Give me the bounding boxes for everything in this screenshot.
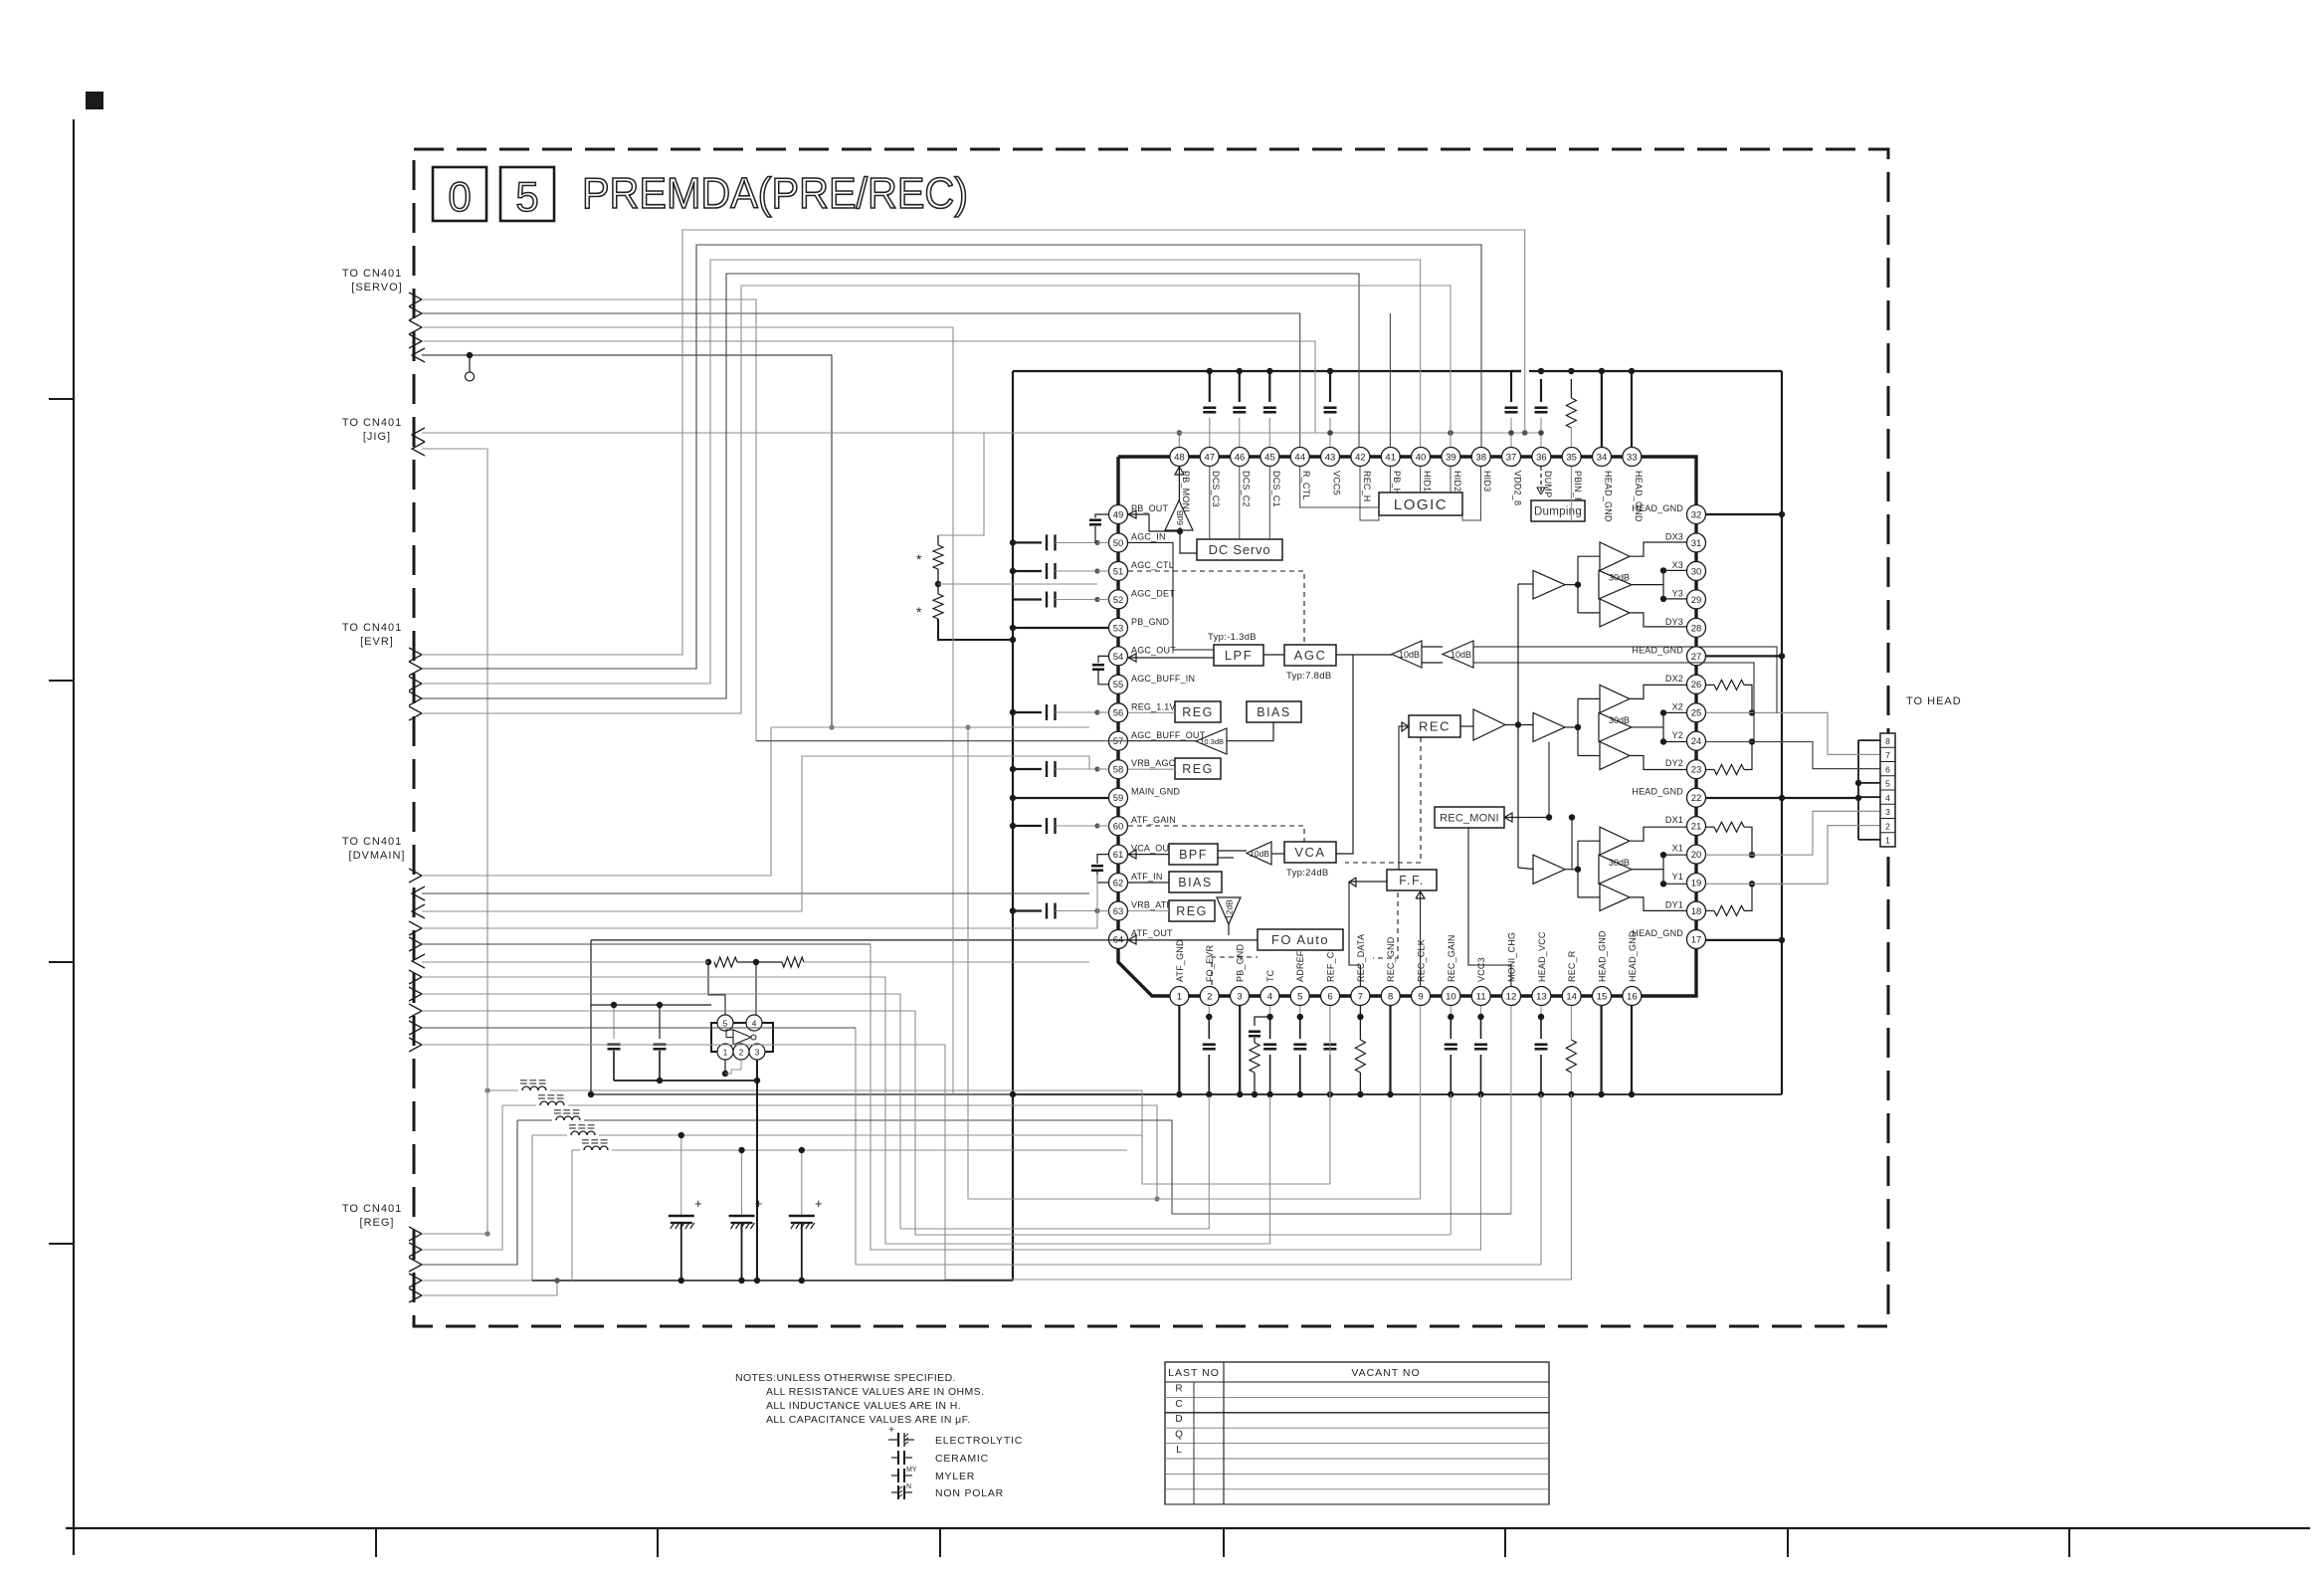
amplifier driver (group 1) (1533, 855, 1565, 884)
svg-text:56: 56 (1113, 708, 1124, 719)
svg-text:22: 22 (1691, 793, 1702, 804)
electrolytic capacitor C3 (801, 1150, 803, 1216)
svg-text:33: 33 (1627, 452, 1638, 463)
svg-text:HID3: HID3 (1482, 471, 1492, 492)
amplifier 30dB (group 3) (1599, 570, 1632, 599)
svg-text:REG: REG (1176, 904, 1208, 918)
wire AGC chain (1263, 654, 1284, 656)
connector TO CN401 SERVO chevrons (409, 293, 422, 306)
svg-text:44: 44 (1294, 452, 1305, 463)
svg-text:TO CN401: TO CN401 (342, 1203, 402, 1215)
svg-text:30dB: 30dB (1609, 715, 1630, 725)
wire Y2 to head connector pin6 (1706, 742, 1881, 769)
svg-text:DCS_C1: DCS_C1 (1271, 471, 1281, 507)
capacitor at pin 37 VDD2_8 (1511, 371, 1521, 402)
IC U201 top pins 48-33 (1170, 448, 1189, 467)
svg-text:DUMP: DUMP (1543, 471, 1553, 497)
wire pin 61 to BPF (1128, 854, 1169, 856)
svg-text:32: 32 (1691, 509, 1702, 520)
wire DVMAIN line7 (422, 977, 1270, 1244)
svg-text:3: 3 (755, 1047, 760, 1057)
capacitor at pin 11 (1480, 1006, 1482, 1017)
capacitor at pin 46 DCS_C2 (1239, 371, 1241, 402)
svg-text:61: 61 (1113, 850, 1124, 861)
svg-text:R: R (1175, 1383, 1182, 1394)
wire MAIN_GND row (1013, 797, 1109, 799)
svg-text:ALL RESISTANCE VALUES ARE IN O: ALL RESISTANCE VALUES ARE IN OHMS. (766, 1386, 984, 1398)
capacitor at pin 13 (1540, 1006, 1542, 1017)
capacitor at pin 50 (1013, 541, 1042, 543)
svg-text:DCS_C2: DCS_C2 (1242, 471, 1252, 507)
svg-text:HEAD_GND: HEAD_GND (1598, 930, 1608, 982)
wire EVR line4 riser (422, 274, 1359, 698)
svg-text:CERAMIC: CERAMIC (935, 1453, 989, 1465)
svg-text:HEAD_GND: HEAD_GND (1604, 471, 1614, 522)
ceramic capacitor at U202 (2) (659, 1005, 661, 1039)
svg-text:59: 59 (1113, 793, 1124, 804)
svg-text:10dB: 10dB (1451, 650, 1471, 660)
resistor DY2 damping (1706, 769, 1715, 771)
wire U202 pin1 stub (724, 1060, 726, 1074)
svg-text:29: 29 (1691, 595, 1702, 606)
svg-text:24: 24 (1691, 736, 1702, 747)
svg-text:4: 4 (1885, 793, 1890, 803)
wire AGC_CTL dashed (1128, 571, 1304, 645)
function block BIAS (AGC) (1247, 701, 1301, 722)
svg-text:REC: REC (1419, 719, 1451, 734)
wire top bus VCC5 (1013, 370, 1521, 372)
svg-text:N: N (906, 1483, 911, 1490)
capacitor+resistor at pin 4 TC (1255, 1017, 1270, 1026)
IC U201 left pins 49-64 (1109, 505, 1128, 524)
wire pin3 PB_GND to bus (1239, 1006, 1241, 1094)
svg-text:TO CN401: TO CN401 (342, 622, 402, 634)
svg-text:REC_GAIN: REC_GAIN (1447, 934, 1456, 982)
left ruler ticks (49, 398, 74, 400)
amplifier 30dB (group 2) (1599, 712, 1632, 741)
svg-text:AGC: AGC (1294, 648, 1327, 663)
wire ceramic caps to U202 (614, 1080, 757, 1082)
svg-text:42: 42 (1355, 452, 1366, 463)
wire pin 36 DUMP to Dumping block (dashed) (1540, 467, 1542, 494)
svg-text:MONI_CHG: MONI_CHG (1507, 932, 1517, 982)
amplifier driver (group 2) (1533, 712, 1565, 741)
svg-text:*: * (916, 604, 922, 620)
svg-text:HEAD_GND: HEAD_GND (1634, 471, 1644, 522)
wire REC_MONI to pin 12 (1468, 828, 1511, 986)
svg-text:ADREF: ADREF (1295, 950, 1305, 982)
capacitor at pin 5 (1299, 1006, 1301, 1017)
wire bundle below IC (gray staircase) (1329, 1006, 1331, 1184)
svg-text:REG: REG (1182, 705, 1214, 719)
svg-text:0: 0 (448, 173, 471, 220)
svg-text:MY: MY (906, 1467, 917, 1474)
wire REG ground line (532, 1280, 1013, 1281)
wire pin50 AGC_IN to AGC chain (1128, 542, 1214, 650)
svg-text:REC_GND: REC_GND (1386, 936, 1396, 982)
svg-text:REC_MONI: REC_MONI (1440, 812, 1499, 824)
capacitor between pins 61-62 (1097, 855, 1109, 864)
wire pin 63 to REG (1128, 910, 1169, 912)
svg-text:5: 5 (1297, 991, 1302, 1002)
svg-text:52: 52 (1113, 595, 1124, 606)
amplifier Y2/DY2 head amp (1600, 742, 1630, 770)
wire F.F. clock from pin 9 (1420, 891, 1422, 986)
svg-text:30dB: 30dB (1609, 858, 1630, 868)
svg-text:10dB: 10dB (1399, 650, 1420, 660)
svg-text:9: 9 (1418, 991, 1423, 1002)
svg-text:ELECTROLYTIC: ELECTROLYTIC (935, 1435, 1023, 1447)
svg-text:X2: X2 (1672, 701, 1683, 711)
svg-text:VDD2_8: VDD2_8 (1513, 471, 1523, 505)
svg-text:REG_1.1V: REG_1.1V (1131, 701, 1176, 711)
wire ATF_GAIN dashed (1128, 826, 1304, 842)
function block DC Servo (1197, 539, 1282, 560)
wire EVR line1 riser (422, 230, 1525, 655)
wire pin8 REC_GND to bus (1389, 1006, 1391, 1094)
svg-text:43: 43 (1325, 452, 1336, 463)
svg-text:ATF_GND: ATF_GND (1175, 939, 1185, 982)
svg-text:45: 45 (1264, 452, 1275, 463)
electrolytic capacitor C2 (741, 1150, 743, 1216)
wire SERVO line2 (to pin 44) (422, 313, 1300, 447)
svg-text:PB_GND: PB_GND (1236, 943, 1246, 982)
svg-text:REC_CLK: REC_CLK (1417, 939, 1427, 982)
svg-text:+: + (694, 1196, 702, 1211)
svg-text:28: 28 (1691, 623, 1702, 634)
svg-text:1: 1 (723, 1047, 728, 1057)
resistor chain * lower (937, 569, 939, 594)
svg-text:46: 46 (1235, 452, 1246, 463)
svg-text:MYLER: MYLER (935, 1471, 975, 1482)
wire pin1 ATF_GND to bus (1178, 1006, 1180, 1094)
function block Dumping (1531, 500, 1585, 521)
amplifier DX3/X3 head amp (1600, 542, 1630, 570)
svg-text:AGC_BUFF_IN: AGC_BUFF_IN (1131, 674, 1195, 684)
svg-text:62: 62 (1113, 879, 1124, 889)
function block REG (VRB_AGC) (1175, 758, 1221, 779)
amplifier 30dB (group 1) (1599, 855, 1632, 884)
svg-text:26: 26 (1691, 680, 1702, 690)
capacitor at pin 43 VCC5 (1329, 371, 1331, 402)
legend myler symbol (891, 1475, 898, 1477)
function block AGC (1284, 645, 1336, 666)
svg-text:VCC5: VCC5 (1332, 471, 1342, 495)
svg-text:48: 48 (1174, 452, 1185, 463)
svg-text:57: 57 (1113, 736, 1124, 747)
svg-text:HID1: HID1 (1423, 471, 1433, 492)
svg-text:BIAS: BIAS (1178, 876, 1213, 889)
wire pin 56 to REG (1128, 711, 1175, 713)
wire driver outputs (1565, 584, 1578, 586)
connector TO CN401 EVR chevrons (409, 648, 422, 662)
svg-text:HEAD_GND: HEAD_GND (1632, 787, 1683, 797)
wire REG line4 with inductor (422, 1280, 532, 1281)
svg-text:VCC3: VCC3 (1476, 957, 1486, 982)
wire DVMAIN line5 (422, 943, 871, 945)
svg-text:AGC_IN: AGC_IN (1131, 531, 1166, 541)
svg-text:TC: TC (1265, 969, 1275, 982)
svg-text:LPF: LPF (1225, 648, 1253, 663)
wire pin 35 PBIN_R down (1570, 467, 1572, 521)
svg-text:Y1: Y1 (1672, 872, 1683, 882)
legend electrolytic symbol (888, 1439, 898, 1441)
title sheet-number box 0 (433, 167, 486, 221)
svg-text:Typ:7.8dB: Typ:7.8dB (1286, 671, 1331, 682)
function block FO Auto (1258, 929, 1343, 950)
wire DVMAIN line10 (422, 1027, 856, 1029)
svg-text:7: 7 (1358, 991, 1363, 1002)
dashed schematic border (414, 149, 1888, 1326)
wire pin11 VCC3 branch (871, 944, 1481, 1250)
wire pin 62 to BIAS (1128, 882, 1169, 884)
svg-text:10.3dB: 10.3dB (1200, 737, 1224, 746)
wire pin 58 to REG (1128, 768, 1175, 770)
capacitor at pin 2 (1208, 1006, 1210, 1017)
svg-text:[SERVO]: [SERVO] (351, 282, 402, 294)
svg-text:NOTES:UNLESS OTHERWISE SPECIFI: NOTES:UNLESS OTHERWISE SPECIFIED. (735, 1372, 956, 1384)
svg-text:TO HEAD: TO HEAD (1906, 695, 1962, 707)
svg-text:C: C (1175, 1399, 1182, 1410)
svg-text:ATF_OUT: ATF_OUT (1131, 928, 1173, 938)
capacitor at pin 51 (1013, 570, 1042, 572)
svg-text:NON POLAR: NON POLAR (935, 1487, 1004, 1499)
test point on SERVO ground (467, 352, 473, 358)
svg-text:X3: X3 (1672, 560, 1683, 570)
wire filler riser x973 (968, 727, 1421, 1199)
vacant number table (1165, 1362, 1549, 1504)
bottom ruler ticks (375, 1528, 377, 1557)
resistor pair at U202 (2) (753, 959, 759, 965)
wire REC_MONI input (1504, 817, 1549, 819)
svg-text:53: 53 (1113, 623, 1124, 634)
wire U202 pin5 feed (708, 962, 725, 1015)
svg-text:HEAD_GND: HEAD_GND (1632, 928, 1683, 938)
amplifier driver (group 3) (1533, 570, 1565, 599)
svg-text:DY2: DY2 (1665, 758, 1683, 768)
svg-text:HEAD_VCC: HEAD_VCC (1537, 931, 1547, 982)
svg-text:36: 36 (1536, 452, 1547, 463)
svg-text:VRB_ATF: VRB_ATF (1131, 900, 1173, 910)
capacitor at pin 4 (1269, 1006, 1271, 1017)
svg-text:LOGIC: LOGIC (1394, 496, 1448, 513)
svg-text:30dB: 30dB (1609, 573, 1630, 583)
svg-text:*: * (916, 551, 922, 567)
title sheet-number box 5 (500, 167, 554, 221)
resistor pair at U202 (1) (705, 959, 711, 965)
svg-text:4: 4 (1267, 991, 1272, 1002)
wire PB_GND row (1013, 627, 1109, 629)
wire pin 34 HEAD_GND to bus (1601, 371, 1603, 447)
wire EVR line3 riser (422, 260, 1421, 684)
IC U202 5-pin device (711, 1023, 773, 1052)
svg-text:12dB: 12dB (1225, 899, 1235, 919)
resistor at pin 7 REC_DATA (1359, 1006, 1361, 1017)
svg-text:5: 5 (1885, 779, 1890, 789)
svg-text:DY3: DY3 (1665, 617, 1683, 627)
svg-text:39: 39 (1446, 452, 1456, 463)
head connector CN (8-pin) (1880, 733, 1895, 847)
resistor DY1 damping (1706, 909, 1715, 911)
svg-text:37: 37 (1506, 452, 1517, 463)
svg-text:25: 25 (1691, 708, 1702, 719)
function block REG (REG_1.1V) (1175, 701, 1221, 722)
svg-text:17: 17 (1691, 934, 1702, 945)
wire pin 33 HEAD_GND to bus (1631, 371, 1633, 447)
svg-text:DX2: DX2 (1665, 674, 1683, 684)
svg-text:ALL INDUCTANCE VALUES ARE IN H: ALL INDUCTANCE VALUES ARE IN H. (766, 1400, 961, 1412)
wire head connector ground comb (1857, 740, 1859, 840)
svg-text:TO CN401: TO CN401 (342, 268, 402, 280)
wire pin15 HEAD_GND to bus (1600, 1006, 1602, 1094)
svg-text:3: 3 (1237, 991, 1242, 1002)
wire pin10 REC_GAIN branch (1450, 1094, 1452, 1235)
svg-text:PB_H: PB_H (1392, 471, 1402, 494)
wire JIG line1 ground (422, 432, 1541, 434)
wire HEAD_GND rows to bus (1706, 513, 1783, 515)
wire 6dB base to DC Servo (1180, 527, 1197, 553)
svg-text:FO_EVR: FO_EVR (1205, 944, 1215, 982)
wire DVMAIN line4 (422, 875, 1097, 928)
wire REG line1 with inductor (422, 1233, 487, 1235)
svg-text:LAST NO: LAST NO (1168, 1367, 1220, 1379)
capacitor at pin 6 REF_CLK (1329, 1006, 1331, 1039)
capacitor at pin 63 (1013, 909, 1042, 911)
svg-text:HEAD_GND: HEAD_GND (1632, 503, 1683, 513)
svg-text:D: D (1175, 1414, 1182, 1425)
svg-text:1: 1 (1885, 836, 1890, 846)
svg-text:AGC_BUFF_OUT: AGC_BUFF_OUT (1131, 730, 1206, 740)
svg-text:10: 10 (1446, 991, 1456, 1002)
amplifier DX1/X1 head amp (1600, 827, 1630, 855)
function block REC_MONI (1435, 807, 1504, 828)
wire REC block chain (1460, 725, 1473, 727)
function block LPF (1214, 645, 1263, 666)
resistor at pin 35 PBIN_R (1570, 379, 1572, 398)
wire digital ground bus (below IC) (591, 1093, 1013, 1095)
wire LOGIC to pin 38 (1462, 467, 1481, 520)
bottom ruler line (66, 1527, 2310, 1529)
amplifier DX2/X2 head amp (1600, 685, 1630, 712)
wire HEAD_GND bus vertical (1781, 371, 1783, 1094)
svg-text:F.F.: F.F. (1399, 874, 1424, 887)
svg-text:PB_GND: PB_GND (1131, 617, 1170, 627)
wire Y1 to head connector pin2 (1706, 826, 1881, 885)
svg-text:19: 19 (1691, 879, 1702, 889)
wire head amp outputs (1630, 542, 1687, 556)
wire REC dashed feedback (1345, 737, 1421, 863)
wire REG line3 with inductor (422, 1120, 517, 1265)
connector TO CN401 DVMAIN chevrons (409, 869, 422, 883)
wire pin13 HEAD_VCC branch (856, 1028, 1541, 1265)
svg-text:5: 5 (515, 173, 538, 220)
legend non polar symbol (891, 1491, 898, 1493)
resistor DX1 damping (1706, 826, 1715, 828)
svg-text:30: 30 (1691, 566, 1702, 577)
function block REG (VRB_ATF) (1169, 900, 1215, 921)
resistor DX2 damping (1706, 684, 1715, 686)
wire cap top rail (591, 1004, 711, 1006)
function block REC (1409, 715, 1460, 737)
wire X1 to head connector pin3 (1706, 811, 1881, 855)
svg-text:DC Servo: DC Servo (1209, 542, 1271, 557)
svg-text:VACANT NO: VACANT NO (1351, 1367, 1420, 1379)
svg-text:8: 8 (1388, 991, 1393, 1002)
svg-text:VCA: VCA (1294, 845, 1325, 860)
svg-text:12: 12 (1506, 991, 1517, 1002)
svg-text:+: + (755, 1196, 763, 1211)
amplifier 10.3dB (AGC_BUFF_OUT) (1196, 728, 1227, 754)
wire pin 44 R_CTL to LOGIC (1300, 467, 1379, 507)
wire pin 57 long line (756, 740, 1128, 742)
svg-text:L: L (1176, 1445, 1182, 1456)
capacitor at pin 58 (1013, 768, 1042, 770)
wire F.F. to REC (1399, 726, 1409, 870)
U202 internal buffer (733, 1030, 751, 1045)
capacitor between pins 49-50 (1095, 514, 1109, 518)
svg-text:AGC_OUT: AGC_OUT (1131, 645, 1176, 655)
wire SERVO line4 (422, 341, 1330, 433)
resistor at pin 14 REC_R (1570, 1006, 1572, 1040)
svg-text:13: 13 (1536, 991, 1547, 1002)
wire VCA to AGC riser (1336, 655, 1353, 854)
wire REG line5 (422, 1280, 557, 1295)
svg-text:49: 49 (1113, 509, 1124, 520)
amplifier 10dB (second playback) (1443, 641, 1473, 668)
wire LOGIC to pin 42 (1360, 467, 1379, 520)
wire pin 57 10.3dB (1128, 740, 1196, 742)
capacitor at pin 52 (1013, 598, 1042, 600)
svg-text:AGC_CTL: AGC_CTL (1131, 560, 1174, 570)
svg-text:14: 14 (1566, 991, 1577, 1002)
amplifier Y3/DY3 head amp (1600, 599, 1630, 627)
svg-text:FO Auto: FO Auto (1271, 932, 1329, 947)
wire DVMAIN line8 (422, 994, 1209, 1229)
wire DC Servo to pins 47 46 45 (1209, 467, 1211, 539)
amplifier REC output (1473, 709, 1505, 740)
svg-text:40: 40 (1416, 452, 1427, 463)
svg-text:8: 8 (1885, 736, 1890, 746)
electrolytic capacitor C1 (680, 1135, 682, 1216)
svg-text:47: 47 (1204, 452, 1215, 463)
wire 6dB amp to pin 49 (1128, 514, 1180, 531)
wire DVMAIN line3 (422, 756, 1089, 911)
resistor chain * upper (937, 535, 939, 545)
capacitor at pin 47 DCS_C3 (1209, 371, 1211, 402)
capacitor at pin 60 (1013, 825, 1042, 827)
svg-text:+: + (888, 1425, 894, 1436)
svg-text:ATF_IN: ATF_IN (1131, 872, 1163, 882)
svg-text:[REG]: [REG] (360, 1217, 395, 1229)
svg-text:TO CN401: TO CN401 (342, 836, 402, 848)
svg-text:REG: REG (1182, 762, 1214, 776)
wire SERVO line3 (422, 326, 953, 328)
legend ceramic symbol (891, 1457, 898, 1459)
wire pin 64 to FO Auto (1128, 939, 1258, 941)
connector TO CN401 JIG chevrons (412, 428, 425, 442)
wire analog ground bus (left of IC) (1012, 371, 1014, 1280)
IC U201 PREMDA outline (1118, 457, 1696, 996)
svg-text:REC_R: REC_R (1567, 950, 1577, 982)
svg-text:TO CN401: TO CN401 (342, 417, 402, 429)
svg-text:7: 7 (1885, 750, 1890, 760)
svg-text:58: 58 (1113, 765, 1124, 776)
wire JIG line2 (422, 448, 487, 450)
svg-text:35: 35 (1566, 452, 1577, 463)
wire bus2 VDD top right (1529, 370, 1782, 372)
wire SERVO line1 (to pin 57 line) (422, 299, 756, 741)
svg-text:DY1: DY1 (1665, 900, 1683, 910)
